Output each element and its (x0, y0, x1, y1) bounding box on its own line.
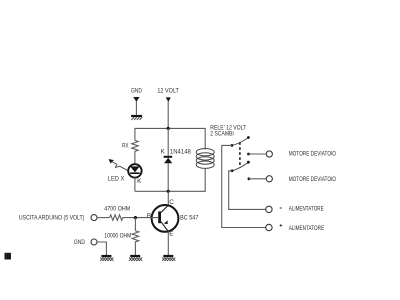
LED X emission arrow (109, 159, 128, 171)
wire SW2 throw to MOTORE terminal 2 (249, 178, 266, 180)
wire bottom rail (135, 190, 205, 192)
svg-text:RX: RX (122, 143, 129, 150)
wire left branch upper (134, 128, 136, 140)
page corner mark (5, 253, 12, 260)
ground emitter hatch (162, 257, 175, 261)
plus sign (280, 224, 283, 227)
svg-text:2 SCAMBI: 2 SCAMBI (210, 131, 234, 138)
switch SW1 pivot dot (231, 144, 234, 147)
terminal circle MOTORE 2 (266, 176, 272, 182)
svg-text:ALIMENTATORE: ALIMENTATORE (289, 225, 324, 232)
svg-text:GND: GND (74, 239, 85, 246)
terminal circle GND (91, 239, 97, 245)
ground GND terminal hatch (100, 257, 113, 261)
GND power arrow triangle (133, 97, 139, 102)
svg-text:E: E (169, 231, 173, 238)
svg-text:GND: GND (131, 88, 142, 95)
wire LED to bottom rail (134, 178, 136, 192)
wire GND terminal to ground (97, 242, 106, 255)
wire SW1 throw to MOTORE terminal 1 (249, 153, 267, 155)
svg-text:MOTORE DEVIATOIO: MOTORE DEVIATOIO (289, 176, 336, 183)
12 VOLT supply stem wire (167, 102, 169, 129)
resistor 10000 OHM zigzag (132, 231, 139, 243)
switch SW2 arm (232, 162, 248, 171)
wire 12V rail to diode cathode (167, 128, 169, 155)
node junction bottom rail / collector (167, 190, 170, 193)
svg-text:12 VOLT: 12 VOLT (157, 87, 179, 94)
transistor Q1 base bar (158, 211, 161, 223)
wire USCITA to R4700 (97, 217, 110, 219)
ground GND terminal bar (101, 255, 111, 257)
wire R10000 to ground (134, 243, 136, 255)
diode D1 cathode bar (164, 156, 173, 158)
node junction top rail / 12V (167, 127, 170, 130)
switch mechanical link dashed (239, 142, 241, 167)
svg-text:MOTORE DEVIATOIO: MOTORE DEVIATOIO (289, 151, 336, 158)
svg-text:10000 OHM: 10000 OHM (104, 233, 131, 240)
transistor Q1 emitter diagonal (161, 222, 168, 232)
ground emitter bar (163, 255, 173, 257)
switch SW1 arm (232, 138, 249, 146)
wire SW2 pivot to minus ALIMENTATORE terminal (229, 171, 266, 210)
wire relay coil to bottom rail (204, 168, 206, 192)
wire collector vertical (167, 191, 169, 205)
LED X anode triangle (130, 166, 139, 172)
terminal circle ALIMENTATORE minus (266, 206, 272, 212)
GND power ground hatch (131, 117, 142, 120)
ground R10000 bar (130, 255, 140, 257)
svg-text:BC 547: BC 547 (180, 214, 199, 221)
svg-text:LED X: LED X (108, 176, 125, 183)
resistor RX zigzag (132, 140, 139, 152)
switch SW2 throw-down dot (248, 177, 251, 180)
wire diode anode to bottom rail (167, 163, 169, 191)
wire R4700 to base (123, 217, 158, 219)
relay K1 coil windings (196, 149, 214, 169)
svg-text:ALIMENTATORE: ALIMENTATORE (289, 206, 324, 213)
resistor 4700 OHM zigzag (110, 215, 123, 221)
wire SW1 pivot to plus ALIMENTATORE terminal (222, 145, 266, 227)
terminal circle ALIMENTATORE plus (266, 224, 272, 230)
switch SW2 pivot dot (231, 169, 234, 172)
LED X circle body (128, 164, 141, 177)
ground R10000 hatch (129, 257, 142, 261)
svg-text:B: B (147, 212, 151, 219)
node junction base / divider (134, 216, 137, 219)
wire RX to LED (134, 152, 136, 164)
svg-text:1N4148: 1N4148 (170, 148, 191, 155)
switch SW1 throw-down dot (247, 153, 250, 156)
12 VOLT supply arrow triangle (166, 97, 171, 102)
transistor Q1 collector diagonal (161, 205, 168, 212)
transistor Q1 emitter arrowhead (164, 220, 168, 224)
GND power ground bar (131, 115, 142, 117)
transistor Q1 body circle (152, 205, 179, 232)
diode D1 triangle (164, 158, 172, 163)
switch SW2 throw-up dot (247, 161, 250, 164)
wire top rail to relay coil (204, 128, 206, 150)
LED X cathode bar (130, 172, 139, 174)
GND power stem wire (135, 101, 137, 115)
switch SW1 throw-up dot (247, 136, 250, 139)
svg-text:4700 OHM: 4700 OHM (104, 206, 130, 213)
terminal circle MOTORE 1 (266, 151, 272, 157)
wire emitter vertical (167, 232, 169, 256)
wire top rail (135, 127, 205, 129)
terminal circle USCITA (91, 215, 97, 221)
minus sign (280, 208, 282, 209)
svg-text:USCITA ARDUINO (5 VOLT): USCITA ARDUINO (5 VOLT) (19, 214, 85, 221)
wire junction to R10000 (134, 218, 136, 231)
